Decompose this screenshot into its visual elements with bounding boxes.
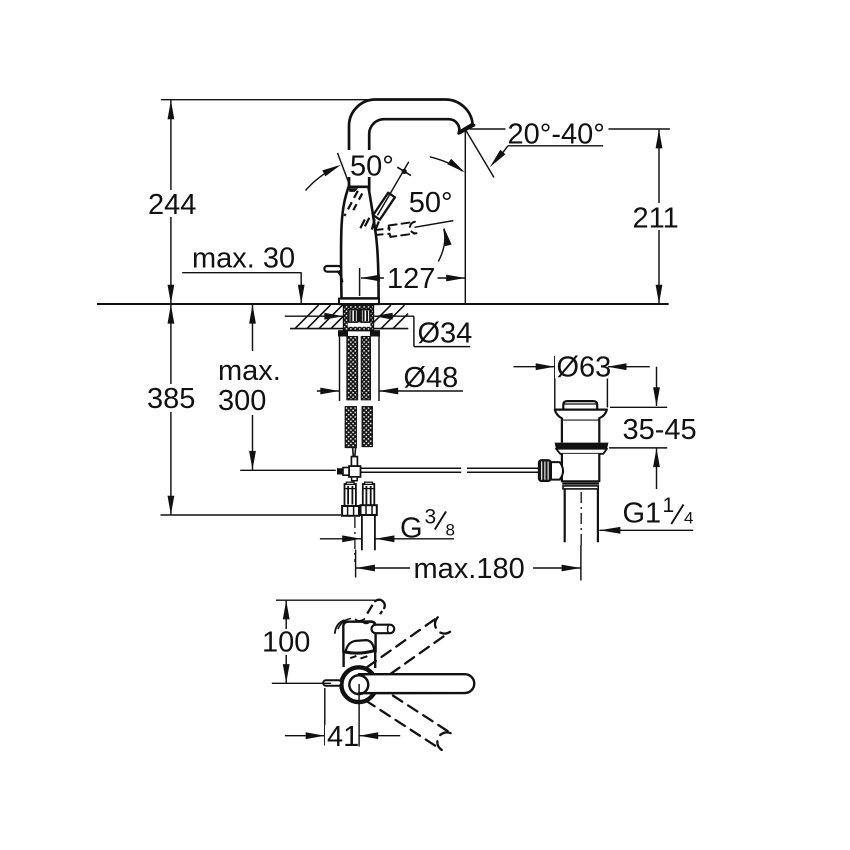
dim G3/8: [320, 538, 361, 540]
label O63: [555, 355, 608, 379]
label 50 upper: [347, 150, 396, 177]
svg-text:211: 211: [633, 203, 679, 235]
drain lower body: [562, 454, 599, 482]
rubber gasket: [555, 443, 609, 449]
svg-text:3: 3: [425, 506, 437, 529]
pivot cross: [397, 167, 411, 175]
svg-text:244: 244: [148, 189, 196, 221]
dim 50 left: curved leader: [306, 167, 338, 191]
svg-text:G1: G1: [623, 498, 662, 530]
label 127: [385, 266, 438, 290]
spout tip extension line: [464, 131, 466, 304]
pull-rod connector: [351, 457, 357, 467]
label 244: [146, 191, 198, 217]
faucet body (side view): [341, 187, 379, 299]
hose end fittings: [345, 484, 356, 506]
dim O34: [285, 315, 344, 317]
top view: body sides: [342, 652, 344, 668]
countertop hatching left: [295, 305, 319, 329]
top view: bold pivot circle: [341, 667, 376, 702]
mounting nut: [338, 330, 348, 336]
label max.: [214, 352, 286, 414]
dim 244: [170, 100, 172, 190]
flexible hoses (upper): [347, 337, 358, 400]
pull rod in shank: [358, 310, 361, 323]
label 100: [259, 629, 311, 654]
svg-text:50°: 50°: [409, 187, 453, 219]
horizontal pull rod to drain: [361, 467, 462, 469]
flexible hoses (lower): [345, 407, 356, 448]
top view: handle (solid): [359, 674, 474, 693]
label 211: [630, 205, 678, 230]
dim 35-45: [656, 367, 658, 406]
label 20-40: [506, 120, 607, 145]
lever body: [373, 193, 395, 220]
dashed lever position inside body: [345, 191, 358, 216]
svg-text:Ø48: Ø48: [404, 362, 459, 394]
label 41: [325, 725, 358, 748]
top reference line at spout height: [161, 99, 376, 101]
drain centerline: [580, 492, 582, 547]
dim 50 left: tilted line: [338, 153, 351, 188]
dim max.30: [182, 272, 301, 274]
spout (side view): [349, 99, 474, 190]
G3/8 hex nuts: [342, 506, 359, 516]
label 35-45: [620, 416, 698, 441]
svg-text:127: 127: [387, 263, 435, 295]
drain upper body: [562, 421, 599, 443]
gasket underside: [556, 449, 607, 454]
dim max.180: [355, 550, 357, 578]
water jet direction line: [466, 130, 494, 178]
svg-text:300: 300: [218, 385, 266, 417]
spout outlet face: [459, 124, 473, 132]
svg-text:max. 30: max. 30: [192, 243, 295, 275]
shank white band: [348, 322, 371, 327]
svg-text:1: 1: [663, 494, 675, 517]
dim 50 lower: arc: [438, 229, 445, 262]
svg-text:20°-40°: 20°-40°: [508, 118, 605, 150]
svg-text:Ø34: Ø34: [418, 318, 473, 350]
svg-text:8: 8: [446, 521, 455, 540]
label O48: [401, 363, 460, 389]
svg-text:41: 41: [327, 721, 359, 753]
svg-text:max.180: max.180: [414, 553, 525, 585]
label O34: [415, 318, 473, 345]
dim 50 lower: extension line: [415, 221, 454, 228]
dim 127: [359, 268, 361, 296]
svg-text:max.: max.: [218, 355, 281, 387]
dim O63: [554, 356, 556, 409]
shank hose windows: [349, 310, 358, 323]
drain plug cap: [563, 401, 597, 409]
top view: dashed spout tip: [367, 605, 372, 614]
label 385: [144, 385, 198, 411]
label 50 lower: [406, 187, 457, 214]
dim O48: [339, 331, 341, 401]
top view: lever knob: [372, 625, 395, 634]
lever axis line to pivot cross: [377, 162, 408, 216]
dim 100: [276, 599, 382, 601]
dim G1 1/4 leader: [599, 529, 693, 531]
dashed lever horizontal position: [377, 228, 391, 230]
svg-text:50°: 50°: [350, 150, 394, 182]
svg-text:35-45: 35-45: [623, 414, 697, 446]
svg-text:G: G: [400, 513, 423, 545]
drain body bottom rings: [561, 480, 600, 482]
svg-text:100: 100: [262, 627, 310, 659]
drain flange: [555, 410, 607, 421]
svg-text:385: 385: [147, 383, 195, 415]
threaded shank: [344, 305, 374, 331]
G3/8 tail pipe: [361, 515, 363, 550]
svg-text:Ø63: Ø63: [557, 352, 612, 384]
spout/body joint line: [349, 186, 369, 188]
swivel arc 20-40: [430, 157, 463, 171]
top view: body cap: [343, 622, 375, 653]
top view: cartridge dome: [346, 640, 374, 651]
drain tailpipe: [564, 489, 566, 542]
svg-text:4: 4: [684, 509, 693, 528]
pop-up rod (side view): [324, 266, 341, 272]
bottom reference line: [161, 514, 342, 516]
countertop underside lines: [290, 328, 344, 330]
dim 20-40 leader: [500, 146, 508, 156]
base plate: [339, 299, 379, 305]
top view: pop-up rod: [323, 680, 341, 686]
countertop hatching right: [374, 305, 391, 322]
dim max.300: [252, 305, 254, 352]
pull rod below hose: [352, 448, 355, 457]
dim 385: [170, 305, 172, 385]
knob connector box: [551, 462, 563, 480]
top view: dashed handle (swung down): [365, 684, 452, 750]
label max.180: [410, 552, 526, 582]
top view: dashed handle (swung up): [365, 616, 450, 684]
countertop surface line: [97, 303, 669, 305]
rod knob (knurled): [539, 460, 551, 481]
lever handle (raised): [372, 219, 375, 229]
dim 41: [324, 688, 326, 746]
centerline below left nut: [354, 517, 356, 562]
dark wedge under joint: [349, 188, 358, 192]
dim 211: [470, 128, 507, 130]
